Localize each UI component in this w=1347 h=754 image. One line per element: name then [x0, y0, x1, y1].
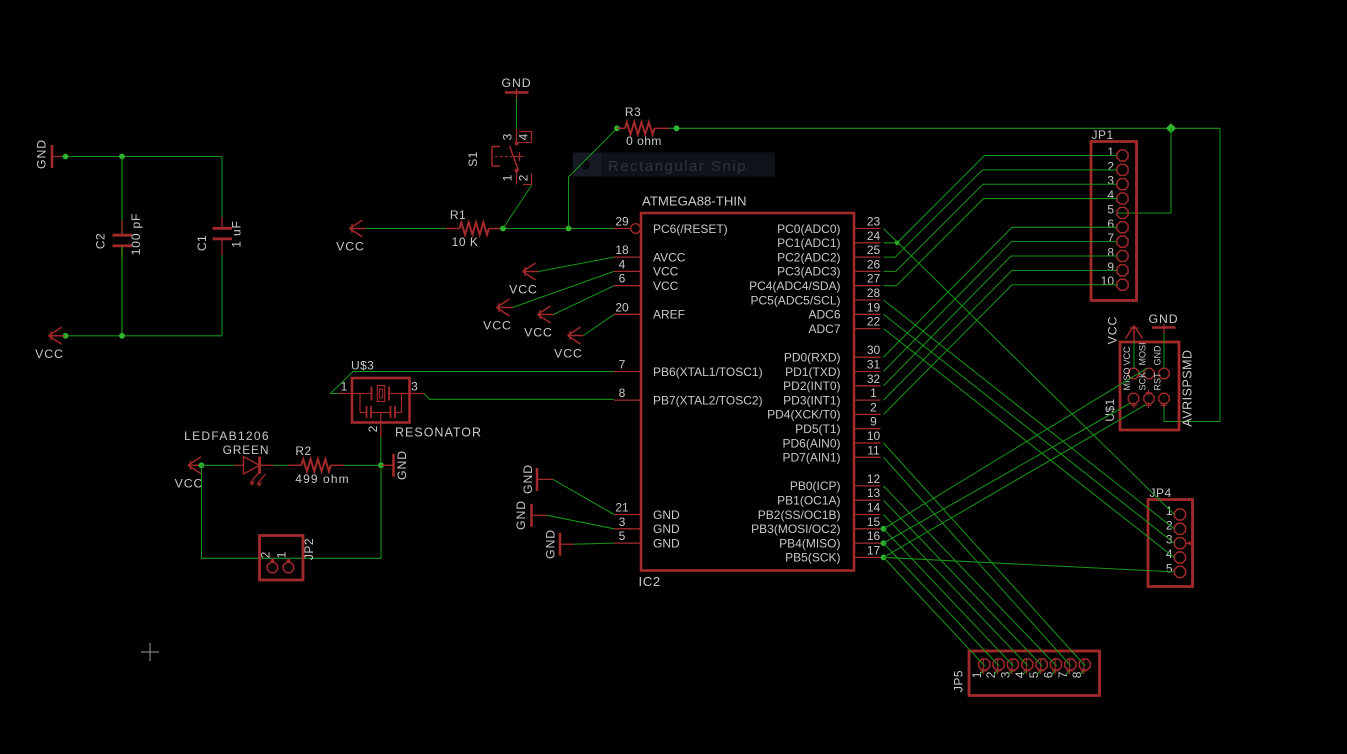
wire IC pin to JP1 pin 1 [884, 156, 1118, 243]
wire top rail C1 C2 [62, 156, 222, 158]
svg-text:ADC6: ADC6 [808, 308, 840, 322]
svg-text:32: 32 [867, 372, 881, 386]
svg-text:R2: R2 [295, 444, 311, 458]
svg-text:S1: S1 [466, 151, 480, 166]
svg-text:GND: GND [1148, 312, 1178, 326]
ground symbol GND (above S1) [501, 76, 531, 98]
wire IC pin to JP1 pin 9 [884, 270, 1118, 400]
wire reset branch to JP1 pin 5 [1117, 128, 1171, 213]
JP1 pin 8 [1107, 246, 1128, 262]
wire IC pin to VCC [539, 257, 615, 271]
IC2 pin 16 PB4(MISO) [779, 529, 880, 550]
node junction VCC-LED [199, 462, 205, 468]
svg-text:PB0(ICP): PB0(ICP) [790, 479, 841, 493]
svg-text:1 uF: 1 uF [230, 220, 244, 247]
U$1 pin MOSI [1138, 342, 1155, 378]
svg-text:30: 30 [867, 343, 881, 357]
IC2 pin 22 ADC7 [808, 315, 880, 336]
svg-text:VCC: VCC [554, 347, 583, 361]
connector JP4 [1148, 486, 1193, 587]
svg-text:C1: C1 [195, 235, 209, 251]
svg-text:Rectangular Snip: Rectangular Snip [608, 158, 747, 175]
JP1 pin 5 [1107, 202, 1128, 218]
svg-text:1: 1 [341, 380, 348, 394]
wire R3 to reset net [569, 128, 618, 228]
svg-text:U$3: U$3 [351, 359, 374, 373]
JP4 pin 1 [1166, 504, 1186, 520]
svg-text:3: 3 [501, 133, 515, 140]
Rectangular Snip overlay [573, 153, 775, 177]
svg-text:11: 11 [867, 443, 880, 457]
wire IC pin to JP1 pin 6 [884, 227, 1118, 357]
IC2 pin 5 GND [614, 529, 680, 550]
svg-text:PB3(MOSI/OC2): PB3(MOSI/OC2) [751, 522, 840, 536]
capacitor C2 [94, 157, 144, 336]
JP1 pin 1 [1107, 145, 1128, 161]
wire SCK pin17 to U$1 [884, 405, 1147, 558]
U$1 pin RST [1153, 372, 1170, 404]
supply VCC (AVRISP) arrow up [1106, 316, 1143, 345]
wire R2 to GND [344, 464, 381, 466]
supply VCC [509, 263, 538, 297]
svg-text:U$1: U$1 [1103, 398, 1117, 421]
wire bottom rail C1 C2 [62, 335, 222, 337]
svg-text:29: 29 [615, 215, 629, 229]
svg-text:PC2(ADC2): PC2(ADC2) [777, 250, 840, 264]
IC2 pin 27 PC4(ADC4/SDA) [749, 272, 880, 293]
svg-text:MISO: MISO [1122, 367, 1132, 390]
IC2 pin 26 PC3(ADC3) [777, 257, 880, 278]
svg-text:18: 18 [615, 243, 629, 257]
svg-text:22: 22 [867, 315, 881, 329]
svg-text:PD1(TXD): PD1(TXD) [785, 365, 840, 379]
JP1 pin 6 [1107, 217, 1128, 233]
svg-text:PC6(/RESET): PC6(/RESET) [653, 222, 728, 236]
svg-text:PB7(XTAL2/TOSC2): PB7(XTAL2/TOSC2) [653, 393, 763, 407]
IC2 pin 28 PC5(ADC5/SCL) [750, 286, 880, 307]
U$1 pin marks [1131, 390, 1167, 409]
svg-text:PD6(AIN0): PD6(AIN0) [782, 436, 840, 450]
svg-text:LEDFAB1206: LEDFAB1206 [184, 429, 270, 443]
svg-text:IC2: IC2 [639, 574, 661, 589]
svg-text:20: 20 [615, 300, 629, 314]
connector U$1 AVRISPSMD [1103, 342, 1195, 430]
ground symbol GND (top-left) [35, 139, 63, 169]
JP5 pin 2 [984, 658, 1004, 678]
svg-text:2: 2 [259, 551, 273, 558]
IC2 pin 30 PD0(RXD) [784, 343, 881, 364]
IC2 pin 14 PB2(SS/OC1B) [758, 501, 881, 522]
svg-text:7: 7 [619, 358, 626, 372]
svg-text:JP1: JP1 [1092, 128, 1114, 142]
svg-text:1: 1 [1107, 145, 1114, 159]
LED LEDFAB1206 GREEN [184, 429, 273, 487]
svg-text:2: 2 [366, 425, 380, 432]
wire VCC to LED [202, 464, 235, 466]
svg-text:2: 2 [517, 174, 531, 181]
svg-text:GND: GND [35, 139, 49, 169]
JP1 pin 7 [1107, 231, 1128, 247]
IC2 pin 18 AVCC [614, 243, 686, 264]
JP5 pin 4 [1013, 658, 1033, 678]
svg-text:RESONATOR: RESONATOR [395, 426, 482, 440]
svg-text:3: 3 [1107, 174, 1114, 188]
resistor R3 0 ohm [617, 105, 669, 148]
svg-text:5: 5 [619, 529, 626, 543]
JP1 pin 2 [1107, 159, 1128, 175]
svg-text:PB2(SS/OC1B): PB2(SS/OC1B) [758, 508, 841, 522]
wire IC pin to JP1 pin 10 [884, 285, 1118, 415]
wire GND to S1 pin 3 [516, 98, 518, 129]
svg-text:17: 17 [867, 543, 881, 557]
IC2 pin 9 PD5(T1) [795, 415, 880, 436]
node junction R3 left [614, 125, 620, 131]
wire GND to pin 21 [553, 479, 614, 514]
node junction GND-C2 rail [63, 154, 125, 160]
connector JP1 [1091, 128, 1137, 301]
svg-text:23: 23 [867, 215, 881, 229]
svg-text:PC4(ADC4/SDA): PC4(ADC4/SDA) [749, 279, 840, 293]
supply VCC [524, 306, 553, 340]
svg-text:0 ohm: 0 ohm [626, 134, 662, 148]
JP4 pin 2 [1166, 518, 1186, 534]
IC2 pin 32 PD2(INT0) [783, 372, 880, 393]
svg-text:GND: GND [544, 529, 558, 559]
U$1 pin GND [1153, 345, 1170, 379]
svg-text:VCC: VCC [1122, 346, 1132, 366]
wire IC pin to JP5 pin 6 [884, 486, 1057, 675]
IC2 pin 19 ADC6 [808, 300, 880, 321]
node junction R2-resonator-GND [378, 462, 384, 468]
resistor R2 499 ohm [288, 444, 350, 486]
svg-text:9: 9 [870, 415, 877, 429]
ground symbol GND (pin 3) [514, 500, 547, 530]
IC2 pin 17 PB5(SCK) [785, 543, 880, 564]
IC2 pin 21 GND [614, 501, 680, 522]
svg-text:VCC: VCC [175, 476, 204, 490]
svg-text:27: 27 [867, 272, 881, 286]
svg-text:GND: GND [653, 522, 680, 536]
svg-text:3: 3 [411, 380, 418, 394]
svg-text:PD4(XCK/T0): PD4(XCK/T0) [767, 408, 840, 422]
svg-text:7: 7 [1107, 231, 1114, 245]
wire resonator pin2 down [380, 437, 382, 465]
capacitor C1 [195, 218, 244, 256]
wire IC pin 22 to JP4 pin 4 [884, 329, 1175, 558]
wire IC pin to JP5 pin 1 [884, 557, 985, 674]
svg-text:C2: C2 [94, 233, 108, 249]
svg-text:3: 3 [619, 515, 626, 529]
wire SCK net to JP4 pin 5 [884, 557, 1175, 572]
wire GND to U$1 GND pin [1163, 333, 1165, 368]
wire IC pin to VCC [513, 271, 615, 307]
IC2 pin 13 PB1(OC1A) [777, 486, 880, 507]
wire IC pin to JP5 pin 8 [884, 443, 1086, 675]
wire IC pin to JP1 pin 3 [884, 184, 1118, 271]
connector JP2 [259, 536, 317, 581]
wire IC pin to VCC [554, 286, 615, 315]
svg-text:VCC: VCC [336, 240, 365, 254]
IC2 pin 2 PD4(XCK/T0) [767, 400, 880, 421]
wire MISO pin16 to U$1 [884, 403, 1131, 543]
svg-text:PC0(ADC0): PC0(ADC0) [777, 222, 840, 236]
svg-text:VCC: VCC [483, 319, 512, 333]
wire IC pin 19 to JP4 pin 3 [884, 314, 1175, 543]
ground symbol GND (AVRISP) [1148, 312, 1178, 333]
node junction JP1 pin1 wire crossing [895, 241, 900, 246]
svg-text:PB1(OC1A): PB1(OC1A) [777, 494, 840, 508]
svg-text:12: 12 [867, 472, 881, 486]
svg-text:GND: GND [1153, 345, 1163, 366]
svg-text:GREEN: GREEN [223, 443, 270, 457]
svg-text:10 K: 10 K [452, 235, 479, 249]
IC2 pin 29 PC6(/RESET) [614, 215, 728, 236]
wire IC pin to JP1 pin 2 [884, 170, 1118, 257]
U$1 pin SCK [1138, 372, 1155, 404]
JP5 pin 6 [1042, 658, 1062, 678]
IC U1 ATMEGA88-THIN body [639, 194, 855, 590]
svg-text:10: 10 [867, 429, 881, 443]
IC2 pin 8 PB7(XTAL2/TOSC2) [614, 386, 763, 407]
svg-text:GND: GND [653, 508, 680, 522]
wire MOSI pin15 to U$1 [884, 368, 1148, 529]
svg-text:13: 13 [867, 486, 881, 500]
svg-text:SCK: SCK [1138, 372, 1148, 391]
svg-text:JP5: JP5 [952, 670, 966, 692]
svg-text:2: 2 [870, 400, 877, 414]
supply VCC (LED) [175, 457, 204, 491]
wire LED to R2 [273, 464, 288, 466]
svg-text:21: 21 [615, 501, 629, 515]
svg-text:PD7(AIN1): PD7(AIN1) [782, 451, 840, 465]
wire C1 right rail [221, 157, 223, 336]
svg-text:9: 9 [1107, 260, 1114, 274]
wire S1 pin 2 to reset net [503, 186, 532, 229]
svg-text:PD3(INT1): PD3(INT1) [783, 393, 840, 407]
IC2 pin 1 PD3(INT1) [783, 386, 880, 407]
svg-text:499 ohm: 499 ohm [295, 472, 349, 486]
cursor crosshair [141, 643, 159, 661]
switch S1 [466, 129, 532, 185]
svg-text:31: 31 [867, 358, 881, 372]
resistor R1 10 K [446, 208, 503, 249]
JP4 pin 5 [1166, 561, 1186, 577]
svg-text:VCC: VCC [653, 279, 679, 293]
svg-text:5: 5 [1166, 561, 1173, 575]
svg-text:R3: R3 [625, 105, 641, 119]
wire IC pin to JP1 pin 4 [884, 199, 1118, 286]
svg-text:2: 2 [1107, 159, 1114, 173]
svg-text:VCC: VCC [653, 265, 679, 279]
svg-text:15: 15 [867, 515, 881, 529]
JP4 pin 4 [1166, 547, 1186, 563]
wire IC pin to JP5 pin 7 [884, 457, 1071, 674]
JP5 pin 8 [1070, 658, 1090, 678]
JP5 pin 1 [970, 658, 990, 678]
svg-text:8: 8 [1107, 246, 1114, 260]
wire IC pin to VCC [584, 314, 615, 335]
svg-text:GND: GND [514, 500, 528, 530]
svg-text:1: 1 [870, 386, 877, 400]
svg-text:1: 1 [275, 551, 289, 558]
node junction R3 right [674, 125, 680, 131]
svg-text:PD2(INT0): PD2(INT0) [783, 379, 840, 393]
svg-text:4: 4 [619, 257, 626, 271]
ground symbol GND (pin 21) [521, 464, 553, 494]
U$1 pin VCC [1122, 346, 1139, 379]
JP4 pin 3 [1166, 533, 1192, 549]
IC2 pin 20 AREF [614, 300, 685, 321]
node junction SCK pin 17 [881, 555, 887, 561]
svg-text:VCC: VCC [524, 326, 553, 340]
node junction reset rail / JP1 pin5 branch (diamond) [1166, 123, 1176, 133]
supply VCC [554, 327, 583, 361]
svg-text:VCC: VCC [509, 283, 538, 297]
wire reset rail to right [669, 127, 1220, 129]
svg-text:PD0(RXD): PD0(RXD) [784, 351, 841, 365]
svg-text:GND: GND [501, 76, 531, 90]
supply VCC (bottom-left) [35, 327, 64, 361]
svg-text:PC1(ADC1): PC1(ADC1) [777, 236, 840, 250]
resonator U$3 [338, 359, 482, 440]
ground symbol GND (pin 5) [544, 529, 575, 559]
wire VCC to R1 [366, 228, 447, 230]
svg-text:AVCC: AVCC [653, 250, 686, 264]
svg-text:28: 28 [867, 286, 881, 300]
ground symbol GND (LED) [381, 450, 409, 480]
svg-text:ATMEGA88-THIN: ATMEGA88-THIN [642, 194, 747, 209]
svg-text:1: 1 [501, 174, 515, 181]
svg-text:MOSI: MOSI [1138, 342, 1148, 365]
svg-text:16: 16 [867, 529, 881, 543]
U$1 pin MISO [1122, 367, 1139, 403]
svg-text:GND: GND [395, 450, 409, 480]
connector JP5 [952, 651, 1100, 696]
svg-text:26: 26 [867, 257, 881, 271]
svg-text:PB5(SCK): PB5(SCK) [785, 551, 840, 565]
JP1 pin 4 [1107, 188, 1128, 204]
IC2 pin 15 PB3(MOSI/OC2) [751, 515, 880, 536]
IC2 pin 31 PD1(TXD) [785, 358, 880, 379]
node junction MOSI pin 15 [881, 526, 887, 532]
IC2 pin 7 PB6(XTAL1/TOSC1) [614, 358, 763, 379]
IC2 pin 6 VCC [614, 272, 679, 293]
wire IC pin to JP5 pin 5 [884, 500, 1043, 674]
svg-text:PB6(XTAL1/TOSC1): PB6(XTAL1/TOSC1) [653, 365, 763, 379]
svg-text:5: 5 [1107, 202, 1114, 216]
IC2 pin 12 PB0(ICP) [790, 472, 881, 493]
svg-text:100 pF: 100 pF [129, 213, 143, 255]
svg-text:25: 25 [867, 243, 881, 257]
IC2 pin 24 PC1(ADC1) [777, 229, 880, 250]
svg-text:PC5(ADC5/SCL): PC5(ADC5/SCL) [750, 293, 840, 307]
svg-text:4: 4 [1107, 188, 1114, 202]
wire resonator pin3 to IC pin 8 [424, 394, 614, 400]
wire GND to pin 3 [547, 515, 614, 529]
svg-text:AREF: AREF [653, 308, 685, 322]
JP5 pin 5 [1027, 658, 1047, 678]
node junction VCC-C2 bottom rail [63, 333, 125, 339]
node junction S1 branch [500, 226, 506, 232]
wire R1 to IC pin 29 [503, 228, 614, 230]
wire IC pin to JP1 pin 8 [884, 256, 1118, 386]
IC2 pin 10 PD6(AIN0) [782, 429, 880, 450]
IC2 pin 23 PC0(ADC0) [777, 215, 880, 236]
svg-text:PC3(ADC3): PC3(ADC3) [777, 265, 840, 279]
svg-text:VCC: VCC [1106, 316, 1120, 345]
IC2 pin 3 GND [614, 515, 680, 536]
wire IC pin 23 to JP4 pin 1 [884, 229, 1175, 515]
wire IC pin to JP1 pin 7 [884, 242, 1118, 372]
svg-text:1: 1 [1166, 504, 1173, 518]
JP1 pin 9 [1107, 260, 1128, 276]
JP5 pin 3 [999, 658, 1019, 678]
supply VCC (reset pull-up) [336, 220, 365, 254]
svg-text:GND: GND [653, 536, 680, 550]
node junction MISO pin 16 [881, 540, 887, 546]
wire LED loop through JP2 [202, 465, 382, 558]
svg-text:R1: R1 [450, 208, 466, 222]
svg-text:VCC: VCC [35, 347, 64, 361]
svg-text:GND: GND [521, 464, 535, 494]
supply VCC [483, 299, 512, 333]
JP1 pin 10 [1101, 274, 1128, 290]
wire GND to pin 5 [574, 543, 614, 544]
svg-text:6: 6 [619, 272, 626, 286]
JP1 pin 3 [1107, 174, 1128, 190]
node junction R3 branch [566, 226, 572, 232]
svg-text:19: 19 [867, 300, 881, 314]
wire IC pin to JP5 pin 4 [884, 515, 1028, 675]
JP5 pin 7 [1056, 658, 1076, 678]
wire IC pin 28 to JP4 pin 2 [884, 300, 1175, 529]
svg-text:14: 14 [867, 501, 881, 515]
IC2 pin 25 PC2(ADC2) [777, 243, 880, 264]
svg-text:ADC7: ADC7 [808, 322, 840, 336]
svg-text:RST: RST [1153, 372, 1163, 391]
svg-text:JP2: JP2 [302, 538, 316, 560]
IC2 pin 11 PD7(AIN1) [782, 443, 880, 464]
wire IC pin to JP5 pin 3 [884, 529, 1014, 675]
IC2 pin 4 VCC [614, 257, 679, 278]
svg-text:4: 4 [517, 133, 531, 140]
wire VCC to U$1 VCC pin [1133, 341, 1135, 368]
svg-text:AVRISPSMD: AVRISPSMD [1181, 349, 1195, 426]
wire resonator pin1 to IC pin 7 [331, 372, 615, 394]
wire IC pin to JP5 pin 2 [884, 543, 1000, 675]
svg-text:PD5(T1): PD5(T1) [795, 422, 840, 436]
svg-text:10: 10 [1101, 274, 1115, 288]
wire reset rail down right side [1164, 128, 1220, 421]
svg-text:24: 24 [867, 229, 881, 243]
svg-text:6: 6 [1107, 217, 1114, 231]
svg-text:PB4(MISO): PB4(MISO) [779, 536, 840, 550]
svg-text:8: 8 [619, 386, 626, 400]
